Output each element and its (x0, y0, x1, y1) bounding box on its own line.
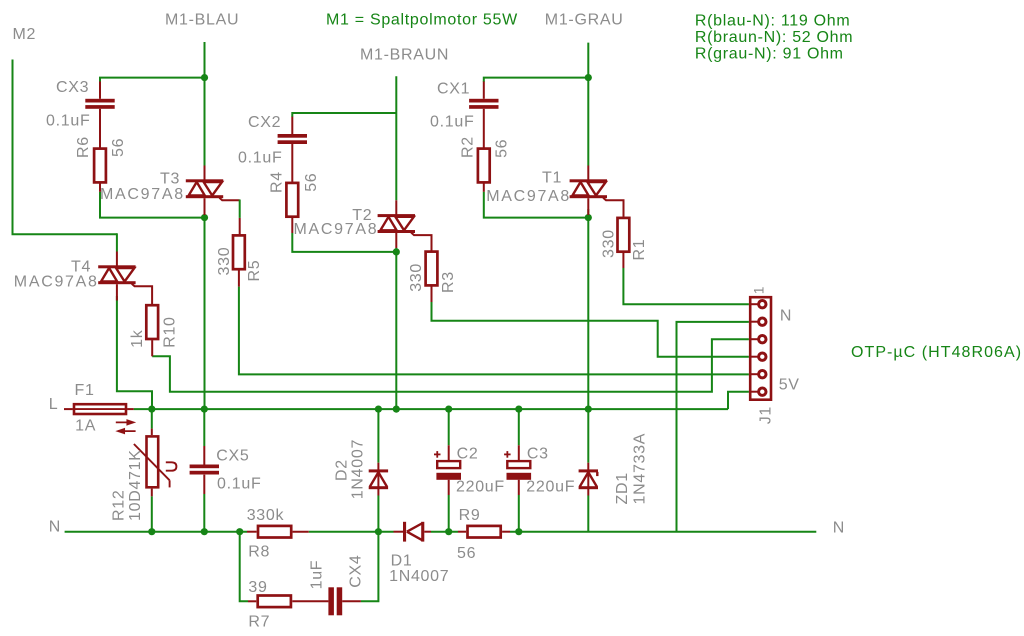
wire D2 top (377, 409, 379, 463)
svg-text:5V: 5V (779, 376, 800, 393)
svg-text:ZD1: ZD1 (614, 472, 631, 504)
junction M1-BLAU / CX3 (201, 74, 208, 81)
zener diode ZD1 (587, 463, 589, 487)
svg-text:220uF: 220uF (526, 479, 575, 496)
svg-text:M2: M2 (13, 26, 37, 43)
svg-text:CX4: CX4 (348, 555, 365, 588)
wire R1 to J1 pin 1 (623, 268, 749, 304)
svg-text:R3: R3 (440, 271, 457, 293)
svg-text:MAC97A8: MAC97A8 (100, 186, 185, 203)
wire net M1-GRAU vertical lower (587, 209, 589, 409)
junction L / M1-GRAU / ZD1 (585, 406, 592, 413)
svg-text:R6: R6 (75, 136, 92, 158)
connector J1 pin 2 (750, 321, 759, 323)
svg-text:R(braun-N): 52 Ohm: R(braun-N): 52 Ohm (695, 29, 853, 46)
connector J1 pin 1 (750, 303, 759, 305)
svg-text:C3: C3 (527, 446, 549, 463)
svg-text:M1-BLAU: M1-BLAU (165, 12, 239, 29)
wire R2 bottom to M1-GRAU junction (484, 192, 589, 218)
fuse F1 arrows (116, 421, 133, 423)
diode D1 (394, 531, 404, 533)
capacitor CX2 (291, 117, 293, 134)
svg-text:R8: R8 (248, 544, 270, 561)
wire R12 top (151, 409, 153, 429)
wire net N segment D1-R9 (431, 531, 458, 533)
wire net M1-BLAU vertical lower (204, 209, 206, 409)
svg-text:R10: R10 (162, 316, 179, 347)
wire net L horizontal (134, 408, 728, 410)
connector J1 pin 4 (750, 356, 759, 358)
svg-text:CX2: CX2 (248, 114, 281, 131)
wire net N segment right (510, 531, 816, 533)
junction N / CX5 (201, 528, 208, 535)
wire C2 bottom to N (448, 495, 450, 532)
wire CX5 top (203, 409, 205, 446)
svg-text:1N4007: 1N4007 (349, 439, 366, 499)
junction N / R7 branch (236, 528, 243, 535)
triac T2 (395, 200, 397, 215)
svg-text:1A: 1A (75, 418, 96, 435)
connector J1 pin 5 (750, 373, 759, 375)
junction L / D2 (375, 406, 382, 413)
svg-text:J1: J1 (758, 406, 775, 424)
capacitor CX4 (328, 587, 334, 615)
triac T1 gate (603, 198, 623, 217)
svg-text:MAC97A8: MAC97A8 (14, 273, 99, 290)
capacitor CX1 (483, 82, 485, 99)
wire T4 bottom to L-jog (117, 296, 152, 409)
svg-text:1uF: 1uF (308, 560, 325, 590)
wire R7 branch down (240, 532, 248, 602)
wire R4 bottom to M1-BRAUN junction (292, 233, 396, 252)
triac T4 (116, 252, 118, 267)
resistor R9 (458, 531, 466, 533)
svg-text:330: 330 (216, 247, 233, 276)
junction N / R12 (148, 528, 155, 535)
svg-text:CX3: CX3 (56, 79, 89, 96)
svg-text:R(blau-N): 119 Ohm: R(blau-N): 119 Ohm (695, 13, 850, 30)
resistor R3 (426, 252, 438, 286)
junction M1-GRAU / CX1 (585, 74, 592, 81)
wire C3 bottom to N (518, 495, 520, 532)
wire T3 gate to R5 (239, 200, 241, 218)
wire C3 top (518, 409, 520, 445)
varistor R12 (151, 429, 153, 436)
svg-text:M1 = Spaltpolmotor 55W: M1 = Spaltpolmotor 55W (326, 11, 518, 28)
triac T3 gate (219, 198, 239, 201)
svg-text:1N4733A: 1N4733A (631, 433, 648, 505)
svg-text:MAC97A8: MAC97A8 (294, 221, 379, 238)
wire net M2 vertical (12, 60, 14, 235)
triac T2 gate (411, 233, 431, 251)
wire D2 bottom to N (377, 496, 379, 532)
svg-text:R2: R2 (460, 136, 477, 158)
svg-text:N: N (833, 520, 845, 537)
wire net M2 horizontal to T4 (12, 233, 118, 235)
svg-text:330: 330 (600, 229, 617, 258)
junction M1-BLAU / R6 (201, 214, 208, 221)
wire net M1-BRAUN vertical lower (395, 248, 397, 409)
junction L / M1-BRAUN (393, 406, 400, 413)
connector J1 pin 3 (750, 338, 759, 340)
svg-text:0.1uF: 0.1uF (217, 476, 261, 493)
triac T1 (587, 166, 589, 181)
resistor R5 (233, 235, 245, 269)
resistor R2 (478, 149, 490, 183)
capacitor C2 (448, 445, 450, 461)
wire net N segment R8-D1 (309, 531, 394, 533)
wire N to J1 pin 2 riser (677, 322, 749, 532)
svg-text:D1: D1 (391, 553, 413, 570)
fuse F1 (64, 408, 73, 410)
svg-text:R7: R7 (248, 613, 270, 630)
svg-text:220uF: 220uF (456, 479, 505, 496)
svg-text:M1-BRAUN: M1-BRAUN (360, 46, 449, 63)
svg-text:0.1uF: 0.1uF (430, 114, 474, 131)
triac T4 gate (132, 284, 152, 304)
svg-text:M1-GRAU: M1-GRAU (545, 12, 624, 29)
svg-text:56: 56 (303, 173, 320, 192)
wire R5 to J1 pin 5 (239, 287, 749, 375)
svg-text:1: 1 (752, 286, 767, 294)
svg-text:56: 56 (110, 138, 127, 157)
junction N / D2 / CX4 (375, 528, 382, 535)
svg-text:CX1: CX1 (437, 81, 470, 98)
connector J1 (750, 297, 771, 400)
capacitor CX5 (203, 446, 205, 465)
wire CX4 to N riser (361, 532, 379, 602)
resistor R6 (94, 149, 106, 183)
svg-text:1N4007: 1N4007 (389, 568, 449, 585)
resistor R1 (618, 218, 630, 252)
wire C2 top (448, 409, 450, 445)
wire net M1-GRAU vertical upper (587, 43, 589, 166)
svg-text:D2: D2 (334, 459, 351, 481)
connector J1 pin 6 (750, 391, 759, 393)
triac T3 (204, 166, 206, 181)
wire R3 to J1 pin 4 (432, 302, 749, 357)
junction M1-BRAUN / R4 (393, 248, 400, 255)
wire R10 to J1 pin 3 (152, 339, 749, 392)
junction L / R12 (148, 406, 155, 413)
junction L / C2 (445, 406, 452, 413)
wire net M1-BLAU vertical upper (204, 42, 206, 166)
wire L to J1 pin 6 riser (728, 392, 749, 409)
junction N / C2 (445, 528, 452, 535)
wire CX3 top horizontal (100, 78, 205, 82)
wire CX2 top horizontal (292, 113, 396, 117)
svg-text:CX5: CX5 (216, 447, 249, 464)
svg-text:56: 56 (494, 139, 511, 158)
junction L / CX5 / M1-BLAU (201, 406, 208, 413)
svg-text:56: 56 (457, 545, 476, 562)
svg-text:330k: 330k (247, 507, 285, 524)
svg-text:C2: C2 (457, 446, 479, 463)
svg-text:OTP-µC (HT48R06A): OTP-µC (HT48R06A) (851, 344, 1022, 361)
wire T4 top lead net (116, 233, 118, 251)
junction N / C3 (515, 528, 522, 535)
svg-text:R4: R4 (268, 171, 285, 193)
svg-text:330: 330 (408, 263, 425, 292)
wire ZD1 bottom to N (587, 496, 589, 532)
svg-text:39: 39 (248, 579, 267, 596)
capacitor CX3 (99, 82, 101, 99)
svg-text:F1: F1 (75, 382, 95, 399)
svg-text:R5: R5 (246, 260, 263, 282)
svg-text:R9: R9 (459, 507, 481, 524)
svg-text:0.1uF: 0.1uF (238, 149, 282, 166)
wire net N segment left (65, 531, 247, 533)
svg-text:T3: T3 (160, 171, 180, 188)
wire ZD1 top (587, 409, 589, 463)
svg-text:R1: R1 (631, 239, 648, 261)
svg-text:10D471K: 10D471K (127, 449, 144, 521)
wire CX1 top horizontal (484, 78, 589, 82)
capacitor C3 (518, 445, 520, 461)
svg-text:R(grau-N): 91 Ohm: R(grau-N): 91 Ohm (695, 46, 844, 63)
wire CX5 bottom to N (203, 494, 205, 532)
svg-text:MAC97A8: MAC97A8 (486, 188, 571, 205)
wire net M1-BRAUN vertical upper (395, 76, 397, 200)
diode D2 (377, 463, 379, 487)
junction L / C3 (515, 406, 522, 413)
wire R12 bottom to N (151, 496, 153, 531)
resistor R10 (146, 305, 158, 339)
junction M1-GRAU / R2 (585, 214, 592, 221)
svg-text:N: N (49, 519, 61, 536)
svg-text:0.1uF: 0.1uF (46, 113, 90, 130)
svg-text:1k: 1k (129, 329, 146, 348)
resistor R4 (286, 183, 298, 217)
resistor R8 (247, 531, 257, 533)
svg-text:R12: R12 (111, 490, 128, 521)
svg-text:L: L (49, 396, 59, 413)
svg-text:T1: T1 (542, 170, 562, 187)
svg-text:N: N (780, 308, 792, 325)
resistor R7 (248, 600, 256, 602)
wire R6 bottom to M1-BLAU junction (100, 192, 205, 218)
